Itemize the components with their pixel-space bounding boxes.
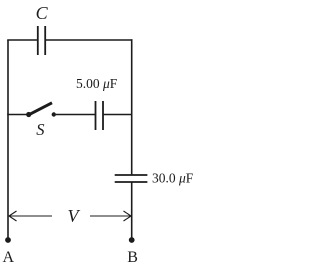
- svg-text:30.0 μF: 30.0 μF: [152, 171, 194, 186]
- svg-text:5.00 μF: 5.00 μF: [76, 76, 118, 91]
- svg-text:S: S: [36, 120, 44, 139]
- svg-text:C: C: [36, 3, 49, 23]
- svg-text:B: B: [127, 249, 138, 265]
- svg-text:A: A: [3, 249, 15, 265]
